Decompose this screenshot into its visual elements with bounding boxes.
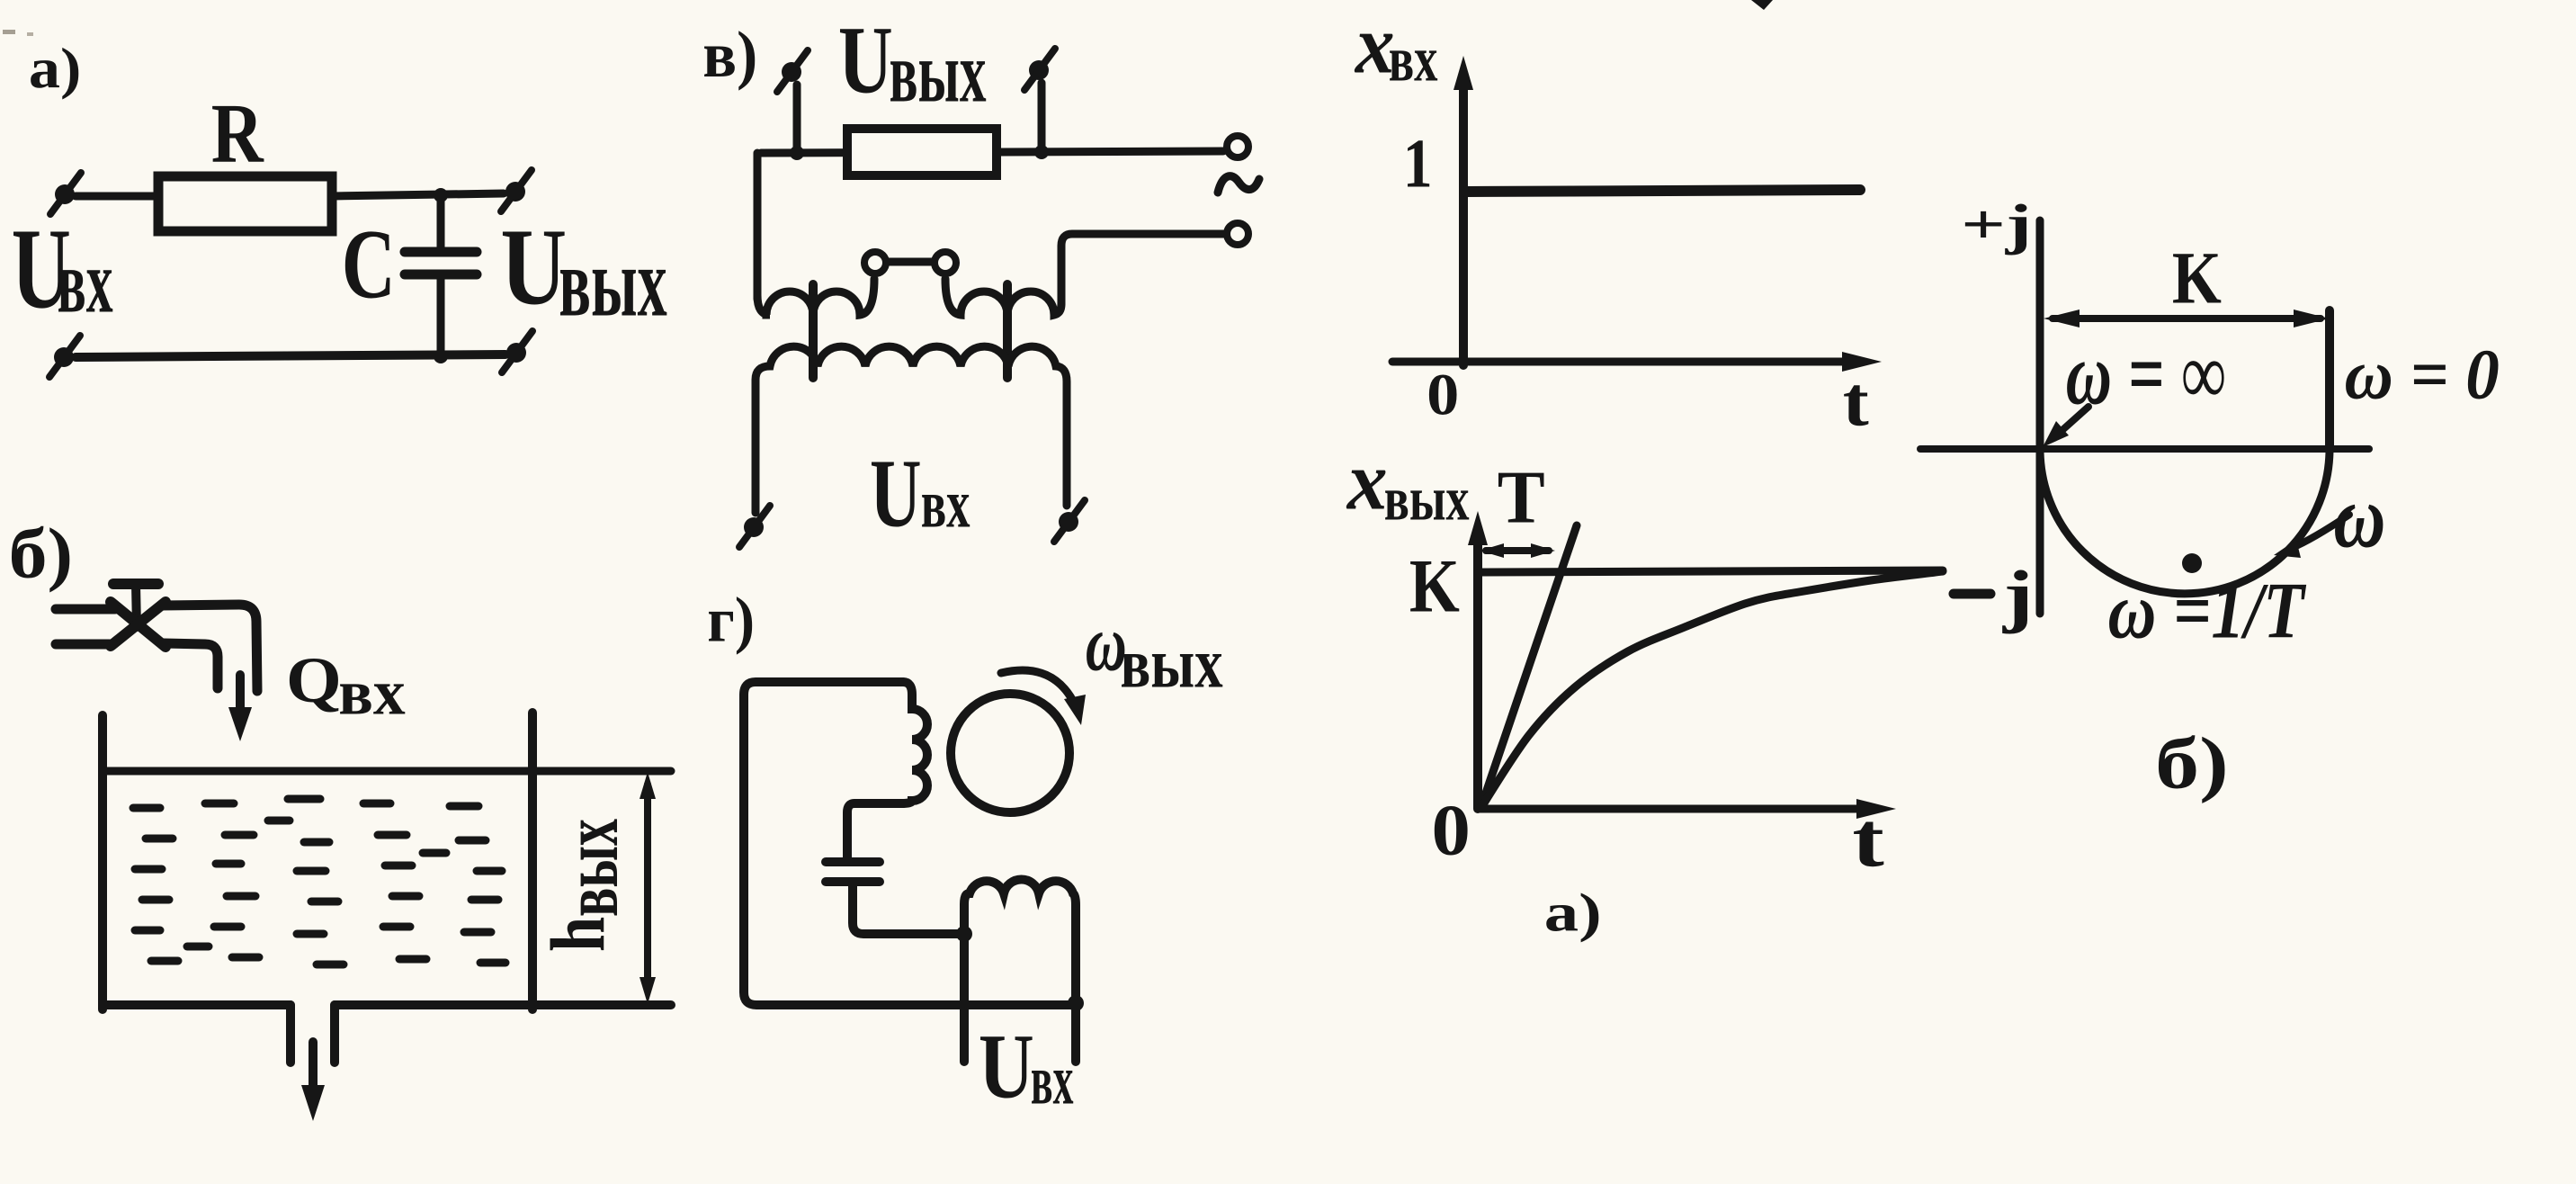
step line	[1466, 190, 1860, 192]
faint scan speck top-left 2	[27, 32, 33, 36]
stray pen mark top edge	[1751, 0, 1773, 10]
svg-text:0: 0	[1432, 790, 1471, 871]
tank bottom line right part	[335, 1000, 671, 1009]
axis label −j (minus stroke)	[1954, 589, 1990, 599]
exponential curve	[1480, 571, 1943, 809]
svg-text:R: R	[211, 85, 264, 180]
svg-text:г): г)	[707, 584, 755, 655]
x axis	[1392, 358, 1846, 366]
field winding (3 humps, right side)	[847, 682, 927, 860]
valve body (bowtie)	[111, 602, 165, 647]
svg-text:ω =1/T: ω =1/T	[2108, 566, 2307, 655]
tank bottom line left part	[103, 1000, 291, 1009]
terminal top-left	[777, 50, 808, 92]
source terminal circle top	[1227, 136, 1248, 157]
svg-text:U: U	[838, 6, 893, 113]
wire input top	[76, 193, 158, 201]
svg-text:K: K	[2172, 237, 2222, 318]
control winding (6 humps)	[756, 346, 1067, 513]
svg-text:+j: +j	[1961, 193, 2032, 256]
svg-text:в): в)	[702, 19, 757, 91]
outlet pipe outer line	[162, 605, 257, 691]
wire from terminal down	[1038, 83, 1046, 153]
AC source symbol ~	[1218, 176, 1259, 193]
svg-text:вх: вх	[1389, 22, 1438, 94]
svg-text:ω: ω	[2333, 466, 2385, 566]
K level line	[1480, 570, 1943, 572]
svg-text:б): б)	[9, 514, 74, 593]
wire from bottom circle to right winding	[1061, 234, 1225, 304]
svg-text:вых: вых	[890, 25, 987, 121]
K dimension arrow	[2053, 315, 2321, 322]
junction dot	[956, 926, 972, 942]
svg-text:ω = 0: ω = 0	[2345, 335, 2500, 414]
output wire top	[761, 151, 1223, 153]
leader arrow to origin	[2054, 407, 2089, 437]
drain pipe right wall	[330, 1005, 339, 1063]
winding link circle right	[935, 252, 956, 274]
capacitor bottom plate	[826, 877, 880, 886]
inlet pipe bottom line	[56, 640, 113, 650]
svg-text:вх: вх	[58, 230, 113, 331]
winding link circle left	[864, 252, 886, 274]
terminal out top	[501, 170, 532, 211]
junction dot left	[790, 146, 804, 160]
svg-text:вых: вых	[1384, 464, 1470, 534]
svg-text:0: 0	[1427, 362, 1459, 427]
y axis	[1473, 540, 1482, 809]
svg-text:вых: вых	[548, 819, 635, 917]
rotation arrow	[1001, 670, 1076, 706]
svg-text:Q: Q	[286, 644, 342, 716]
svg-text:вых: вых	[1120, 624, 1222, 704]
terminal bottom-right	[1054, 500, 1085, 542]
y axis	[1459, 86, 1468, 365]
capacitor wire bottom	[437, 274, 445, 356]
drain pipe left wall	[286, 1005, 295, 1063]
capacitor top plate	[826, 857, 880, 866]
svg-text:ω = ∞: ω = ∞	[2066, 324, 2226, 423]
faint scan speck top-left	[3, 30, 15, 34]
inflow arrow Q_вх	[236, 675, 245, 720]
svg-text:1: 1	[1403, 126, 1433, 202]
imaginary axis	[2036, 220, 2044, 614]
svg-text:вых: вых	[559, 227, 666, 336]
terminal bottom-right	[502, 331, 532, 372]
left vertical wire	[754, 153, 762, 299]
terminal in top-left	[50, 173, 81, 214]
outflow arrow	[309, 1042, 318, 1096]
svg-text:U: U	[870, 439, 922, 548]
wire resistor to output	[332, 193, 504, 196]
capacitor C top plate	[405, 247, 477, 257]
tank right wall	[528, 713, 537, 1009]
omega=0 tick	[2325, 310, 2334, 450]
svg-text:T: T	[1498, 454, 1545, 538]
motor rotor circle	[951, 694, 1069, 812]
svg-text:вх: вх	[1031, 1039, 1074, 1118]
svg-text:t: t	[1852, 797, 1883, 884]
junction dot right	[1068, 995, 1084, 1011]
terminal top-right	[1024, 49, 1055, 90]
terminal bottom-left	[49, 336, 80, 377]
node junction top	[434, 188, 448, 202]
supply loop: top edge, left edge, bottom wire	[744, 682, 1076, 1005]
water dashes	[133, 799, 505, 964]
junction dot right	[1034, 145, 1049, 159]
valve handle T-bar	[113, 579, 158, 589]
svg-text:а): а)	[29, 37, 81, 100]
svg-text:вх: вх	[921, 466, 970, 543]
working winding right (2 humps)	[945, 279, 1061, 315]
T dimension arrow	[1486, 547, 1549, 554]
svg-text:t: t	[1843, 363, 1870, 441]
x axis	[1478, 805, 1860, 813]
wire from terminal down	[793, 85, 801, 153]
svg-text:j: j	[2002, 556, 2034, 634]
terminal bottom-left	[739, 506, 770, 547]
outlet pipe inner line	[164, 643, 218, 688]
direction arrow on circle	[2292, 515, 2349, 548]
resistor R	[158, 176, 332, 231]
tangent line	[1480, 525, 1577, 809]
resistor load	[847, 129, 997, 175]
wire capacitor to armature junction	[853, 882, 964, 934]
svg-text:б): б)	[2155, 723, 2229, 804]
armature winding (3 humps on top)	[964, 879, 1076, 1062]
capacitor C wire top	[437, 195, 445, 252]
svg-text:U: U	[500, 207, 567, 327]
core leg right	[1003, 284, 1012, 378]
svg-text:K: K	[1409, 544, 1460, 629]
real axis	[1920, 445, 2369, 453]
svg-text:вх: вх	[338, 656, 405, 728]
tank left wall	[98, 715, 107, 1009]
link wire between circles	[887, 258, 934, 266]
source terminal circle bottom	[1227, 223, 1248, 245]
valve stem	[136, 584, 137, 627]
svg-text:x: x	[1346, 435, 1388, 527]
bottom wire	[76, 354, 505, 357]
dot omega=1/T	[2182, 553, 2202, 573]
inlet pipe top line	[56, 605, 115, 614]
nyquist semicircle	[2040, 449, 2330, 594]
core leg left	[809, 284, 818, 378]
node junction bottom	[434, 349, 448, 363]
capacitor C bottom plate	[405, 270, 477, 280]
svg-text:h: h	[536, 917, 622, 952]
water surface line	[107, 767, 671, 776]
svg-text:C: C	[342, 211, 396, 320]
svg-text:U: U	[979, 1017, 1034, 1118]
svg-text:а): а)	[1544, 882, 1602, 942]
working winding left (2 humps)	[757, 279, 874, 315]
dimension arrow h_вых	[644, 785, 651, 988]
